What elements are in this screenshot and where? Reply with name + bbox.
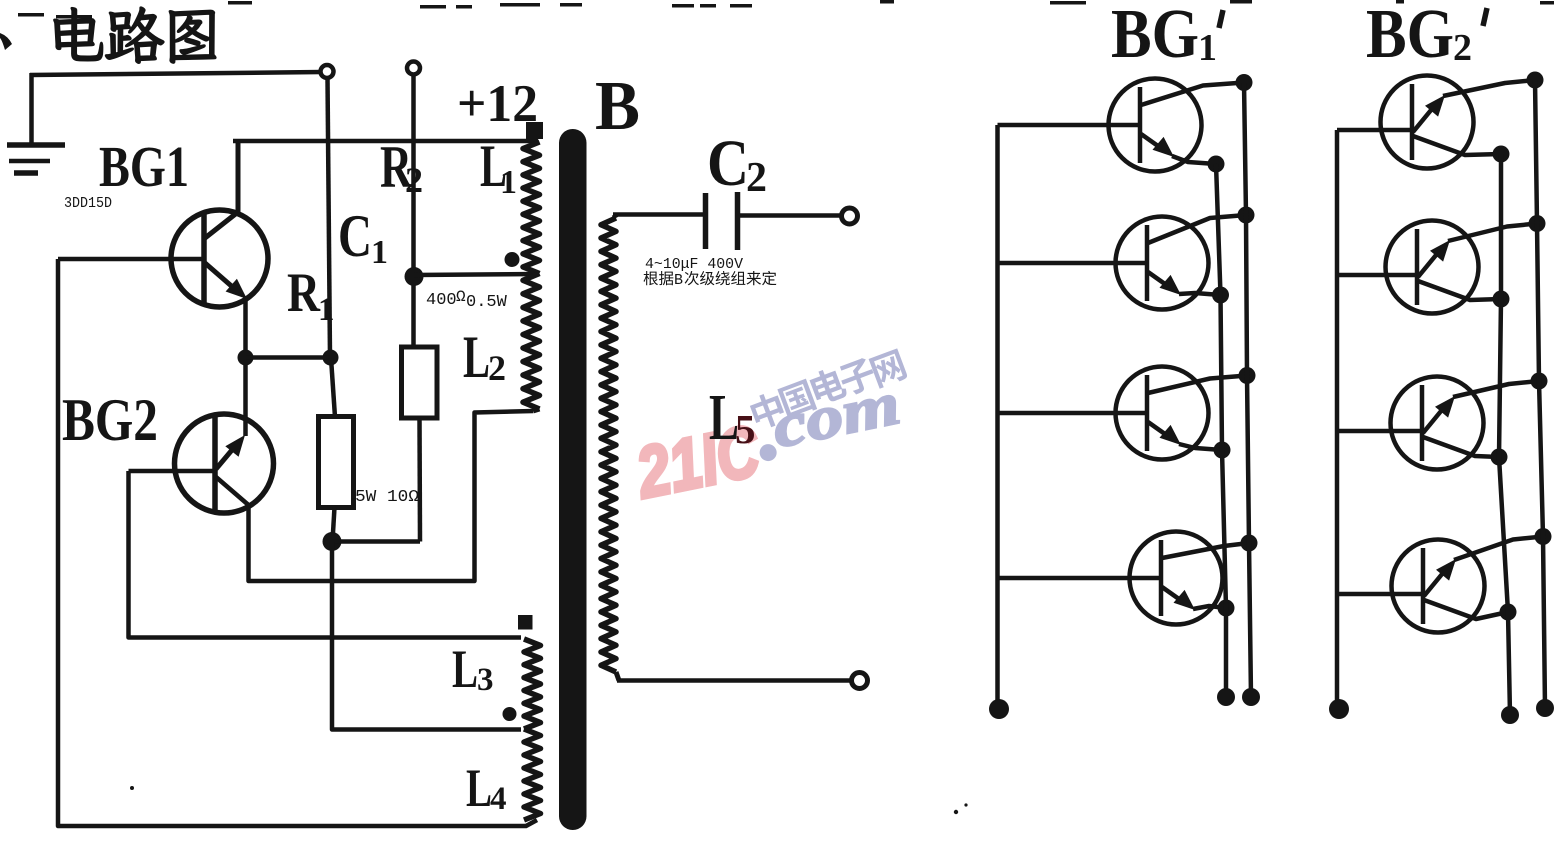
svg-text:1: 1: [500, 164, 517, 201]
svg-text:4: 4: [490, 781, 507, 817]
label C2 value: [645, 256, 743, 273]
svg-text:3: 3: [477, 662, 494, 698]
node BG2'-1 collector: [1493, 146, 1510, 163]
label L3: [452, 639, 494, 699]
wire C1 from terminal: [328, 78, 331, 357]
label 400Ω 0.5W: [426, 288, 508, 312]
node BG1'-2 collector: [1238, 207, 1255, 224]
inductor L4: [524, 729, 541, 820]
node BG1'-3 collector: [1239, 367, 1256, 384]
label BG1': [1111, 0, 1223, 73]
watermark 21IC.com 中国电子网: [629, 343, 909, 514]
title 电路图: [54, 7, 216, 63]
transistor BG2'-4: [1337, 537, 1543, 633]
transistor BG2'-3: [1337, 377, 1539, 470]
svg-text:0.5W: 0.5W: [466, 293, 508, 312]
node emitter junction BG1: [238, 350, 254, 366]
wire BG2' inner bus: [1499, 154, 1510, 715]
label 5W 10Ω: [355, 488, 419, 507]
node BG1'-4 emitter: [1218, 600, 1235, 617]
node BG1'-1 collector: [1236, 74, 1253, 91]
node BG1'-3 emitter: [1214, 442, 1231, 459]
svg-text:2: 2: [488, 348, 506, 388]
wire BG1 emitter to node: [243, 296, 248, 436]
svg-text:2: 2: [1453, 27, 1472, 69]
wire R1 bottom lead: [333, 508, 335, 542]
resistor R1: [319, 417, 354, 508]
inductor L3: [524, 639, 541, 729]
transistor BG1 circle: [171, 210, 268, 307]
svg-text:1: 1: [318, 292, 335, 328]
svg-text:BG2: BG2: [62, 387, 158, 453]
terminal output bottom: [852, 673, 868, 689]
transistor BG2 base bar: [212, 417, 218, 511]
svg-text:+12: +12: [457, 75, 538, 133]
transistor BG2'-1: [1337, 76, 1535, 169]
svg-text:5: 5: [735, 406, 756, 452]
svg-text:BG: BG: [1366, 0, 1454, 73]
polarity dot L3 top: [518, 615, 533, 630]
node BG1' left bus bottom: [989, 699, 1009, 719]
svg-text:B: B: [595, 68, 640, 145]
svg-text:BG: BG: [1111, 0, 1199, 73]
transistor BG1'-4: [998, 532, 1250, 625]
svg-text:L: L: [463, 324, 490, 390]
node BG2'-3 collector: [1491, 449, 1508, 466]
wire R1 top lead: [331, 358, 335, 417]
svg-text:R: R: [287, 262, 320, 324]
svg-text:2: 2: [405, 160, 423, 200]
wire BG1 base lead: [58, 257, 202, 262]
inductor L1: [523, 142, 540, 274]
node BG1'-4 collector: [1241, 535, 1258, 552]
node BG2'-2 emitter: [1529, 215, 1546, 232]
svg-text:L: L: [452, 639, 478, 699]
label BG2': [1366, 0, 1487, 73]
svg-text:C: C: [707, 127, 749, 200]
wire BG2 base lead: [129, 469, 214, 474]
label R2: [380, 134, 423, 200]
transistor BG1'-3: [998, 367, 1248, 460]
label BG1: [99, 134, 189, 199]
svg-text:L: L: [466, 758, 492, 818]
terminal output top: [842, 208, 858, 224]
node BG2'-3 emitter: [1531, 373, 1548, 390]
polarity dot L1 top: [526, 122, 543, 139]
svg-text:5W 10Ω: 5W 10Ω: [355, 488, 419, 507]
wire L5 top to C2: [613, 212, 704, 217]
polarity dot L1-L2: [505, 252, 520, 267]
wire L5 bottom to terminal: [617, 678, 851, 683]
wire BG1' inner bus: [1216, 164, 1226, 697]
terminal input 2: [407, 62, 420, 75]
wire emitter node to C1 node: [246, 355, 331, 360]
node BG2'-4 emitter: [1535, 528, 1552, 545]
svg-text:2: 2: [746, 155, 767, 201]
inductor L2: [523, 274, 540, 412]
node BG2' left bus bottom: [1329, 699, 1349, 719]
wire tap to L1-L2: [414, 274, 538, 275]
node C1 junction: [323, 350, 339, 366]
wire R2 bottom lead: [417, 418, 422, 542]
transformer core: [559, 129, 587, 830]
capacitor C2: [706, 192, 738, 250]
node BG1'-1 emitter: [1208, 156, 1225, 173]
wire BG1 base left rail: [58, 259, 537, 826]
wire top rail to terminal: [30, 72, 322, 75]
transistor BG1 base bar: [201, 211, 207, 306]
label L5: [709, 381, 756, 454]
label BG2: [62, 387, 158, 453]
label R1: [287, 262, 335, 328]
wire BG2' left bus: [1335, 130, 1340, 708]
node BG2' outer bus bottom: [1536, 699, 1554, 717]
transistor BG1'-2: [998, 215, 1247, 310]
node BG2'-1 emitter: [1527, 72, 1544, 89]
label L2: [463, 324, 506, 390]
transistor BG2 circle: [175, 414, 274, 513]
label C2: [707, 127, 767, 201]
node BG2'-2 collector: [1493, 291, 1510, 308]
wire C2 to terminal: [740, 213, 842, 218]
svg-text:3DD15D: 3DD15D: [64, 196, 112, 212]
node BG2' inner bus bottom: [1501, 706, 1519, 724]
wire node to R2 bottom: [332, 539, 420, 544]
node BG1'-2 emitter: [1212, 287, 1229, 304]
node R1R2 to tap wire: [332, 542, 521, 730]
wire BG1' outer bus: [1244, 83, 1251, 698]
svg-text:B: B: [674, 272, 683, 289]
node R2 tap junction: [405, 267, 424, 286]
transistor BG2'-2: [1337, 221, 1537, 314]
label L1: [480, 133, 517, 201]
label C1: [338, 203, 388, 271]
wire BG2' outer bus: [1535, 80, 1545, 708]
wire BG2 collector: [216, 411, 533, 581]
wire +12 rail: [233, 139, 538, 144]
node BG1' outer bus bottom: [1242, 688, 1260, 706]
node BG1' inner bus bottom: [1217, 688, 1235, 706]
inductor L5: [601, 215, 619, 681]
label +12: [457, 75, 538, 133]
svg-text:Ω: Ω: [456, 288, 466, 306]
wire BG1' left bus: [995, 125, 1000, 708]
wire BG2 emitter: [216, 435, 245, 469]
svg-text:1: 1: [371, 234, 388, 271]
label 3DD15D: [64, 196, 112, 212]
label B: [595, 68, 640, 145]
label L4: [466, 758, 507, 818]
wire BG1 emitter: [205, 263, 247, 299]
terminal input 1: [321, 65, 334, 78]
svg-text:BG1: BG1: [99, 134, 189, 199]
wire R2 top lead: [411, 74, 416, 347]
wire BG1 collector: [205, 141, 238, 238]
ground: [7, 73, 65, 173]
node R1-R2 junction: [323, 532, 342, 551]
polarity dot L3-L4: [503, 707, 517, 721]
svg-text:C: C: [338, 203, 372, 269]
label C2 note 根据B次级绕组来定: [644, 271, 777, 289]
transistor BG1'-1: [998, 79, 1245, 172]
node BG2'-4 collector: [1500, 604, 1517, 621]
svg-text:400: 400: [426, 291, 457, 310]
svg-text:1: 1: [1198, 27, 1217, 69]
svg-text:4~10μF 400V: 4~10μF 400V: [645, 256, 743, 273]
wire BG2 base to L3: [129, 471, 522, 638]
resistor R2: [402, 347, 438, 418]
